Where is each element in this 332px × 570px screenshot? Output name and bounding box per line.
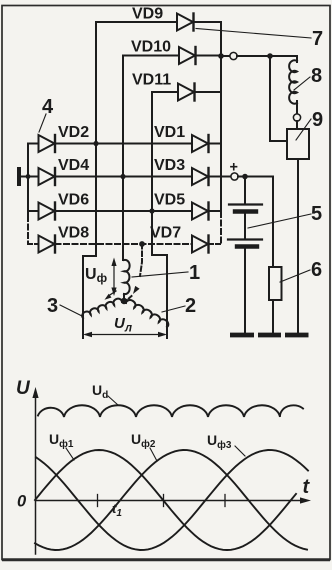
label 9 pointer bbox=[296, 119, 311, 140]
svg-text:8: 8 bbox=[311, 65, 322, 87]
svg-text:3: 3 bbox=[47, 295, 58, 317]
svg-text:Ud: Ud bbox=[92, 382, 108, 401]
svg-text:Uф2: Uф2 bbox=[131, 431, 156, 450]
field output wire bbox=[221, 55, 230, 57]
wire VD10 anode from phase B bbox=[123, 55, 179, 57]
wire VD11 anode from phase C bbox=[152, 91, 178, 93]
diode VD11 bbox=[178, 84, 221, 101]
axis tick 1 bbox=[97, 495, 99, 507]
ground bus dash 1 bbox=[230, 333, 254, 338]
svg-text:VD8: VD8 bbox=[58, 225, 89, 242]
svg-text:1: 1 bbox=[189, 262, 200, 284]
label 6 pointer bbox=[280, 270, 310, 282]
diode VD3 bbox=[192, 168, 221, 185]
svg-text:VD4: VD4 bbox=[58, 157, 89, 174]
svg-text:7: 7 bbox=[312, 28, 323, 50]
svg-text:4: 4 bbox=[42, 96, 54, 118]
wire bbox=[237, 56, 297, 62]
label 4 pointer bbox=[39, 114, 46, 132]
wire bbox=[296, 101, 298, 114]
svg-text:0: 0 bbox=[17, 493, 27, 511]
phase A bus bbox=[83, 22, 96, 338]
battery output wire bbox=[221, 176, 230, 178]
diode VD7 bbox=[192, 236, 221, 253]
label 1 pointer bbox=[132, 272, 188, 277]
svg-text:VD2: VD2 bbox=[58, 124, 89, 141]
diode VD1 bbox=[192, 135, 221, 152]
axis tick 2 bbox=[163, 495, 165, 507]
row 3: wire bbox=[28, 210, 39, 212]
load resistor 6 bbox=[269, 267, 282, 300]
node at rectifier output bbox=[218, 53, 224, 59]
label 3 pointer bbox=[60, 305, 82, 316]
connector circle 7 bbox=[230, 52, 237, 59]
wire battery to ground bbox=[244, 249, 246, 334]
wire between cells bbox=[244, 213, 246, 239]
wire VD9 anode from phase A bbox=[96, 21, 177, 23]
ground bus dash 3 bbox=[285, 333, 309, 338]
U_phase dimension arrow bbox=[111, 258, 116, 297]
node left bus row2 bbox=[26, 174, 31, 179]
diode VD10 bbox=[179, 47, 221, 64]
battery 5 cell 2 bbox=[228, 240, 262, 247]
wire to battery bbox=[244, 177, 246, 205]
regulator box 9 bbox=[287, 129, 309, 159]
phase B bus bbox=[122, 56, 124, 261]
neutral node bbox=[139, 241, 145, 247]
wire bbox=[238, 177, 273, 268]
Ud label pointer bbox=[108, 396, 118, 405]
svg-text:VD10: VD10 bbox=[131, 39, 171, 56]
label 5 pointer bbox=[248, 214, 311, 228]
text labels bbox=[58, 6, 185, 242]
chassis terminal bar bbox=[17, 167, 21, 186]
positive bus dashed section to neutral row bbox=[220, 212, 222, 244]
wire coil to star bbox=[123, 294, 125, 301]
regulator input wire bbox=[270, 56, 287, 141]
svg-text:VD1: VD1 bbox=[154, 124, 185, 141]
stator phase winding (middle coil) bbox=[124, 260, 130, 294]
U_line dimension arrow bbox=[83, 332, 167, 337]
diode VD5 bbox=[192, 203, 221, 220]
svg-text:VD11: VD11 bbox=[132, 72, 171, 89]
diode VD2 bbox=[39, 135, 56, 152]
plus terminal circle bbox=[231, 173, 238, 180]
svg-text:9: 9 bbox=[312, 109, 323, 131]
label 2 pointer bbox=[162, 306, 185, 312]
phase curve U2 bbox=[35, 450, 307, 550]
svg-text:VD7: VD7 bbox=[150, 225, 181, 242]
rectified voltage Ud curve bbox=[38, 405, 303, 417]
svg-text:VD9: VD9 bbox=[132, 6, 163, 23]
svg-text:VD3: VD3 bbox=[154, 157, 185, 174]
brush contact circle bbox=[293, 114, 300, 121]
wire terminal to bus bbox=[21, 176, 28, 178]
dashed neutral link with arrow bbox=[127, 244, 142, 300]
Y axis bbox=[32, 387, 38, 554]
phase C bus bbox=[152, 92, 167, 338]
field winding 8 bbox=[289, 60, 297, 103]
svg-text:Uф: Uф bbox=[85, 266, 108, 285]
wire resistor to ground bbox=[272, 300, 274, 333]
phase curve U1 bbox=[35, 450, 296, 550]
battery 5 cell 1 bbox=[229, 205, 262, 212]
phase curve U3 bbox=[36, 450, 308, 550]
svg-text:Uф3: Uф3 bbox=[207, 432, 232, 451]
wire bbox=[296, 121, 298, 129]
row 1 wire across bbox=[56, 143, 193, 145]
current arrow on left winding bbox=[105, 291, 117, 300]
svg-text:Uф1: Uф1 bbox=[49, 431, 74, 450]
label 7 pointer bbox=[196, 29, 311, 39]
row 3 wire across bbox=[56, 210, 193, 212]
row 2: wire bbox=[28, 176, 39, 178]
svg-text:U: U bbox=[16, 378, 31, 399]
row 1: wire bbox=[28, 143, 39, 145]
node phase B row2 bbox=[120, 174, 125, 179]
left negative bus bbox=[27, 144, 29, 217]
U_phi3 label pointer bbox=[235, 446, 245, 456]
right stator winding bbox=[126, 300, 168, 327]
svg-text:VD6: VD6 bbox=[58, 192, 89, 209]
U_phi1 label pointer bbox=[66, 448, 74, 460]
node phase A row1 bbox=[93, 141, 98, 146]
svg-text:5: 5 bbox=[311, 203, 322, 225]
svg-text:2: 2 bbox=[185, 295, 196, 317]
label 8 pointer bbox=[294, 77, 310, 90]
diode VD6 bbox=[39, 203, 56, 220]
U_phi2 label pointer bbox=[150, 448, 157, 461]
svg-text:t: t bbox=[303, 476, 311, 498]
node phase C row3 bbox=[149, 208, 154, 213]
svg-text:+: + bbox=[230, 160, 238, 176]
svg-text:6: 6 bbox=[311, 259, 322, 281]
positive bus (cathode bus) x=221 bbox=[220, 22, 222, 212]
star point node bbox=[121, 298, 127, 304]
wire regulator to ground bbox=[297, 159, 299, 333]
svg-text:VD5: VD5 bbox=[154, 192, 185, 209]
axis tick 3 bbox=[224, 495, 226, 507]
node at field branch bbox=[267, 53, 273, 59]
svg-text:Uл: Uл bbox=[114, 315, 132, 335]
ground bus dash 2 bbox=[258, 333, 281, 338]
diode VD9 bbox=[177, 14, 221, 31]
row 4 neutral dashed: wire bbox=[28, 243, 39, 245]
X axis bbox=[36, 497, 312, 503]
node battery branch bbox=[242, 174, 248, 180]
row 4 dashed wire bbox=[56, 243, 193, 245]
diode VD4 bbox=[39, 168, 56, 185]
diode VD8 bbox=[39, 236, 56, 253]
left stator winding bbox=[82, 299, 122, 318]
row 2 wire across bbox=[56, 176, 193, 178]
